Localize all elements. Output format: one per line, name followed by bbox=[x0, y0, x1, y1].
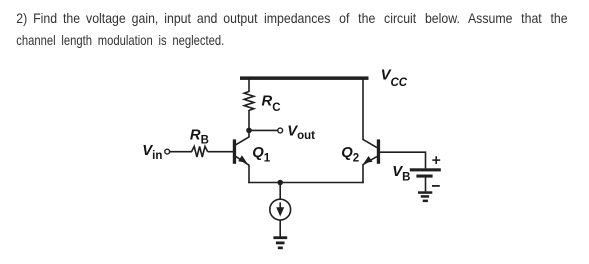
wire: Q1 emitter down bbox=[248, 165, 250, 184]
node: collector/output junction bbox=[246, 128, 252, 134]
wire: node to Vout terminal bbox=[249, 129, 278, 131]
junction: tail node bbox=[277, 180, 283, 186]
label - bbox=[432, 185, 440, 187]
battery VB bbox=[410, 168, 441, 177]
wire: Vin to RB bbox=[170, 151, 192, 153]
svg-text:VCC: VCC bbox=[381, 67, 408, 89]
svg-text:RC: RC bbox=[262, 93, 281, 114]
svg-text:channel length modulation is n: channel length modulation is neglected. bbox=[16, 33, 224, 48]
svg-text:Q2: Q2 bbox=[341, 145, 359, 165]
wire: current source to ground bbox=[279, 220, 281, 237]
ground (tail current source) bbox=[273, 236, 287, 249]
terminal Vin (open circle) bbox=[165, 149, 170, 154]
label + bbox=[432, 156, 440, 164]
wire: battery to ground bbox=[425, 177, 427, 191]
current source I1 bbox=[270, 199, 291, 220]
transistor Q2 bbox=[363, 139, 380, 164]
resistor RC bbox=[244, 92, 254, 111]
svg-text:VB: VB bbox=[392, 164, 410, 184]
svg-text:Vin: Vin bbox=[142, 143, 162, 162]
svg-text:RB: RB bbox=[190, 127, 209, 146]
wire: VCC rail to Q2 collector bbox=[362, 79, 364, 141]
wire: Q2 base to VB bbox=[380, 152, 426, 168]
power rail VCC bbox=[240, 76, 369, 80]
transistor Q1 bbox=[233, 137, 249, 165]
wire: tail node to current source bbox=[279, 183, 281, 200]
wire: RC to output node bbox=[248, 110, 250, 132]
wire: rail to RC bbox=[248, 79, 250, 93]
wire: Q2 emitter down bbox=[362, 164, 364, 183]
ground (VB) bbox=[418, 191, 432, 202]
terminal Vout (open circle) bbox=[278, 128, 283, 133]
wire: emitter rail bbox=[248, 182, 364, 184]
svg-text:2) Find the voltage gain, inpu: 2) Find the voltage gain, input and outp… bbox=[16, 11, 258, 27]
svg-text:Q1: Q1 bbox=[252, 145, 271, 165]
resistor RB bbox=[192, 146, 208, 157]
wire: RB to Q1 base bbox=[208, 151, 233, 153]
svg-text:impedances of the circuit belo: impedances of the circuit below. Assume … bbox=[264, 11, 568, 27]
svg-text:Vout: Vout bbox=[287, 123, 315, 142]
wire: Q1 collector up to node bbox=[248, 130, 250, 138]
